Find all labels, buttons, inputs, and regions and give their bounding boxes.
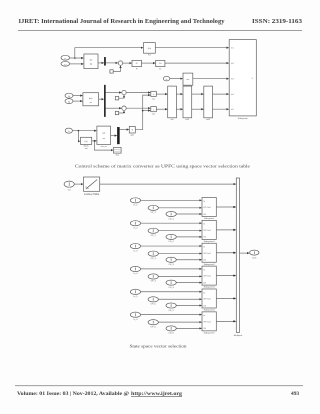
svg-text:http://www.ijret.org: http://www.ijret.org bbox=[131, 391, 182, 397]
block C3 angle calc bbox=[183, 73, 193, 85]
wire sq1 to S1 bbox=[113, 66, 120, 72]
inport CG_6 bbox=[166, 326, 176, 331]
demux bar M2 bbox=[104, 85, 105, 117]
svg-text:In5: In5 bbox=[231, 109, 234, 111]
block Subsystem2 bbox=[202, 243, 216, 262]
svg-text:Subsystem3: Subsystem3 bbox=[204, 286, 216, 289]
svg-text:In_3: In_3 bbox=[134, 250, 139, 252]
wire CG_1 to Subsystem bbox=[176, 213, 201, 215]
svg-text:IJRET: International Journal o: IJRET: International Journal of Research… bbox=[19, 18, 226, 25]
wire In_1 to Subsystem bbox=[141, 199, 202, 201]
svg-text:CG_1: CG_1 bbox=[168, 218, 174, 220]
svg-text:Lookup Table: Lookup Table bbox=[84, 192, 100, 196]
wire D to mux M3 bbox=[111, 135, 117, 137]
block B2 bbox=[156, 60, 165, 66]
node junction row4 bbox=[78, 130, 80, 132]
svg-text:G: G bbox=[131, 130, 133, 132]
sum S1 bbox=[118, 61, 122, 65]
wire TR1-TR2 row4 bbox=[176, 93, 182, 95]
inport theta oval3 bbox=[163, 76, 170, 81]
wire Subsystem to multiport bbox=[216, 206, 236, 208]
wire OP_5 to Subsystem4 bbox=[158, 298, 201, 300]
svg-text:dq: dq bbox=[90, 63, 92, 65]
block Subsystem4 bbox=[202, 289, 216, 308]
sum S2a bbox=[122, 90, 126, 94]
svg-text:State space vector selection: State space vector selection bbox=[130, 343, 188, 348]
block K2 comparator bbox=[151, 107, 157, 112]
wire A2 to mux M2 bbox=[99, 98, 104, 100]
svg-text:rad: rad bbox=[85, 147, 88, 150]
node junction feedback K2 bbox=[142, 110, 144, 112]
wire feedback to K2 bbox=[143, 110, 151, 112]
wire CG_4 to Subsystem3 bbox=[176, 282, 201, 284]
wire Fcn to D bbox=[92, 140, 97, 142]
svg-text:sec: sec bbox=[186, 79, 189, 81]
svg-text:Subsystem: Subsystem bbox=[204, 217, 214, 220]
svg-text:In: In bbox=[203, 224, 205, 226]
svg-text:In_5: In_5 bbox=[134, 296, 139, 298]
svg-text:OP Out1: OP Out1 bbox=[203, 206, 210, 209]
svg-text:ISSN: 2319-1163: ISSN: 2319-1163 bbox=[252, 18, 302, 25]
wire M3 to gate G bbox=[120, 129, 129, 131]
svg-text:abc: abc bbox=[89, 59, 92, 61]
svg-text:1/s: 1/s bbox=[159, 63, 162, 65]
svg-text:In1: In1 bbox=[231, 48, 234, 50]
svg-text:CG_6: CG_6 bbox=[168, 333, 174, 335]
svg-text:In: In bbox=[203, 269, 205, 271]
svg-text:In2: In2 bbox=[231, 63, 234, 65]
svg-text:Vd: Vd bbox=[68, 96, 70, 98]
wire A1 to mux M1 bbox=[98, 62, 104, 64]
svg-text:Int: Int bbox=[159, 67, 161, 70]
wire Subsystem3 to multiport bbox=[216, 275, 236, 277]
inport Vref oval4 bbox=[65, 128, 72, 133]
inport In_5 bbox=[130, 289, 140, 294]
wire tap up to top bus bbox=[75, 48, 143, 58]
wire TR2-TR3 row4 bbox=[192, 93, 204, 95]
block Subsystem3 bbox=[202, 266, 216, 285]
wire Subsystem2 to multiport bbox=[216, 252, 236, 254]
block TR3 delay bbox=[204, 86, 213, 118]
node tap to display bbox=[94, 140, 96, 142]
svg-text:Vq: Vq bbox=[68, 102, 70, 104]
svg-text:In_1: In_1 bbox=[134, 205, 139, 207]
wire lookup table to multiport bbox=[100, 183, 236, 185]
svg-text:sw1: sw1 bbox=[152, 98, 155, 100]
inport CG_3 bbox=[166, 257, 176, 262]
inport In_2 bbox=[130, 221, 140, 226]
svg-text:OP Out1: OP Out1 bbox=[203, 252, 210, 255]
wire B1 to B2 bbox=[142, 62, 156, 64]
wire B2 to subsystem input 2 bbox=[165, 62, 229, 64]
header rule bbox=[18, 30, 302, 32]
svg-text:f(u): f(u) bbox=[148, 48, 152, 50]
wire sq2b to S2b bbox=[119, 111, 124, 113]
wire OP_2 to Subsystem1 bbox=[158, 230, 201, 232]
svg-text:zoh: zoh bbox=[171, 119, 174, 121]
wire S2a to K1 bbox=[126, 92, 150, 94]
inport OP_4 bbox=[148, 274, 158, 279]
wire In1 to abc2dq bbox=[70, 57, 84, 59]
block abc2dq A1 bbox=[84, 54, 98, 69]
wire CG_3 to Subsystem2 bbox=[176, 259, 201, 261]
wire Subsystem1 to multiport bbox=[216, 229, 236, 231]
inport CG_1 bbox=[166, 212, 176, 217]
svg-text:OP Out1: OP Out1 bbox=[203, 298, 210, 301]
svg-text:OP_1: OP_1 bbox=[151, 212, 157, 214]
svg-text:Subsystem1: Subsystem1 bbox=[204, 240, 216, 243]
wire S2b to K2 bbox=[126, 107, 150, 109]
svg-text:In4: In4 bbox=[231, 94, 234, 96]
svg-text:Subsystem: Subsystem bbox=[238, 117, 248, 120]
svg-text:In_2: In_2 bbox=[134, 227, 139, 229]
svg-text:sw2: sw2 bbox=[152, 114, 155, 116]
mux bar M3 bbox=[117, 127, 119, 144]
wire sq2a to S2a bbox=[119, 95, 124, 98]
wire OP_3 to Subsystem2 bbox=[158, 253, 201, 255]
svg-text:Subsystem4: Subsystem4 bbox=[204, 309, 216, 312]
wire OP_4 to Subsystem3 bbox=[158, 275, 201, 277]
inport Vq oval bbox=[65, 99, 73, 104]
wire M1 to sum S1 bbox=[106, 62, 118, 64]
inport CG_2 bbox=[166, 234, 176, 239]
wire K2 to delay TR1 row5 bbox=[156, 108, 167, 110]
svg-text:Subsystem2: Subsystem2 bbox=[204, 263, 216, 266]
block A2 transform bbox=[83, 93, 99, 106]
wire Subsystem5 to multiport bbox=[216, 320, 236, 322]
wire multiport to Out1 bbox=[240, 252, 250, 254]
wire S1 to PI block B1 bbox=[123, 62, 132, 64]
wire OP_1 to Subsystem bbox=[158, 207, 201, 209]
svg-text:In: In bbox=[203, 247, 205, 249]
inport In1 bbox=[61, 55, 70, 60]
inport OP_5 bbox=[148, 297, 158, 302]
multiport switch block bbox=[236, 178, 239, 332]
inport In_6 bbox=[130, 312, 140, 317]
constant sq2b bbox=[115, 111, 118, 114]
svg-text:calc_sw: calc_sw bbox=[101, 146, 108, 148]
inport In1 d2 bbox=[64, 181, 74, 187]
block D calc bbox=[97, 126, 111, 144]
inport In_1 bbox=[130, 198, 140, 203]
wire In1 to lookup table bbox=[74, 183, 83, 185]
block B1 bbox=[132, 60, 142, 66]
inport In_4 bbox=[130, 266, 140, 271]
wire TR3 to subsystem input 4 bbox=[213, 93, 229, 95]
wire In_5 to Subsystem4 bbox=[141, 291, 202, 293]
svg-text:In_4: In_4 bbox=[134, 273, 139, 275]
inport OP_3 bbox=[148, 251, 158, 256]
svg-text:zoh1: zoh1 bbox=[185, 119, 189, 121]
outport Out1 bbox=[250, 250, 259, 255]
wire TR3 to subsystem input 5 bbox=[213, 108, 229, 110]
sum S2b bbox=[122, 106, 126, 110]
wire OP_6 to Subsystem5 bbox=[158, 321, 201, 323]
wire M2 to sum S2a bbox=[106, 92, 122, 94]
svg-text:OP_3: OP_3 bbox=[151, 258, 157, 260]
inport OP_6 bbox=[148, 320, 158, 325]
footer rule bbox=[15, 385, 303, 387]
block TR2 delay bbox=[183, 86, 192, 118]
svg-text:In1: In1 bbox=[64, 58, 66, 60]
wire In_2 to Subsystem1 bbox=[141, 222, 202, 224]
wire In_3 to Subsystem2 bbox=[141, 245, 202, 247]
wire Vd to A2 bbox=[73, 95, 82, 97]
svg-text:disp: disp bbox=[116, 154, 119, 156]
svg-text:CG_3: CG_3 bbox=[168, 264, 174, 266]
svg-text:zoh2: zoh2 bbox=[206, 119, 210, 121]
svg-text:CG_5: CG_5 bbox=[168, 310, 174, 312]
block display E bbox=[114, 147, 122, 153]
node tap junction bbox=[74, 57, 76, 59]
constant sq1 bbox=[110, 70, 113, 73]
wire gate feedback up to K1 K2 bbox=[135, 95, 150, 130]
svg-text:OP Out1: OP Out1 bbox=[203, 320, 210, 323]
wire TR2-TR3 row5 bbox=[192, 108, 204, 110]
svg-text:Out1: Out1 bbox=[252, 257, 257, 260]
svg-text:OP Out1: OP Out1 bbox=[203, 275, 210, 278]
block gate G bbox=[129, 126, 135, 133]
wire In_6 to Subsystem5 bbox=[141, 314, 202, 316]
block Subsystem5 bbox=[202, 312, 216, 331]
svg-text:In3: In3 bbox=[231, 79, 234, 81]
svg-text:sin: sin bbox=[90, 102, 92, 104]
svg-text:OP_2: OP_2 bbox=[151, 235, 157, 237]
wire oval3 to C3 bbox=[170, 78, 183, 80]
svg-text:PI: PI bbox=[136, 68, 138, 70]
block Fcn deg2rad bbox=[81, 137, 92, 144]
inport In2 bbox=[61, 61, 70, 66]
svg-text:Fcn: Fcn bbox=[148, 55, 151, 57]
wire CG_5 to Subsystem4 bbox=[176, 304, 201, 306]
svg-text:Volume: 01 Issue: 03 | Nov-201: Volume: 01 Issue: 03 | Nov-2012, Availab… bbox=[17, 391, 129, 397]
wire CG_6 to Subsystem5 bbox=[176, 327, 201, 329]
inport OP_1 bbox=[148, 205, 158, 210]
wire CG_2 to Subsystem1 bbox=[176, 236, 201, 238]
svg-text:CG_4: CG_4 bbox=[168, 287, 174, 289]
block TR1 delay bbox=[168, 86, 177, 118]
svg-text:OP_4: OP_4 bbox=[151, 281, 157, 283]
svg-text:Control scheme of matrix conve: Control scheme of matrix converter as UP… bbox=[75, 163, 250, 168]
svg-text:calc: calc bbox=[102, 132, 106, 134]
wire C3 to subsystem input 3 bbox=[193, 78, 229, 80]
inport Vd oval bbox=[65, 93, 73, 98]
svg-text:In1: In1 bbox=[68, 189, 72, 191]
svg-text:CG_2: CG_2 bbox=[168, 241, 174, 243]
inport CG_5 bbox=[166, 303, 176, 308]
mux bar M1 bbox=[104, 57, 105, 65]
svg-text:In_6: In_6 bbox=[134, 319, 139, 321]
wire M2 to sum S2b bbox=[106, 107, 122, 109]
svg-text:Multiport: Multiport bbox=[234, 334, 243, 337]
wire In2 to abc2dq bbox=[70, 63, 84, 65]
inport CG_4 bbox=[166, 280, 176, 285]
wire tap down to display E bbox=[94, 141, 113, 150]
wire junction down to Fcn bbox=[78, 131, 80, 142]
svg-text:In: In bbox=[203, 201, 205, 203]
constant sq2a bbox=[115, 97, 118, 100]
wire In_4 to Subsystem3 bbox=[141, 268, 202, 270]
wire Subsystem4 to multiport bbox=[216, 297, 236, 299]
subsystem block BB bbox=[229, 40, 256, 116]
svg-text:493: 493 bbox=[291, 391, 299, 397]
svg-text:OP_6: OP_6 bbox=[151, 326, 157, 328]
block Subsystem bbox=[202, 198, 216, 217]
svg-text:Subsystem5: Subsystem5 bbox=[204, 331, 216, 334]
block K1 comparator bbox=[151, 91, 157, 96]
svg-text:In: In bbox=[203, 292, 205, 294]
svg-text:gate: gate bbox=[131, 133, 134, 136]
wire Vq to A2 bbox=[73, 100, 82, 102]
wire oval4 to D bbox=[72, 130, 96, 132]
svg-text:f(u): f(u) bbox=[85, 141, 88, 143]
inport In_3 bbox=[130, 244, 140, 249]
block T phase bbox=[144, 43, 156, 54]
block Lookup Table bbox=[84, 177, 100, 191]
wire TR1-TR2 row5 bbox=[176, 108, 182, 110]
wire T to subsystem input 1 bbox=[155, 47, 228, 49]
svg-text:In: In bbox=[203, 315, 205, 317]
svg-text:In2: In2 bbox=[64, 64, 66, 66]
block Subsystem1 bbox=[202, 220, 216, 239]
inport OP_2 bbox=[148, 228, 158, 233]
wire K1 to delay TR1 row4 bbox=[156, 93, 167, 95]
svg-text:th: th bbox=[166, 78, 167, 81]
svg-text:OP Out1: OP Out1 bbox=[203, 229, 210, 232]
svg-text:OP_5: OP_5 bbox=[151, 304, 157, 306]
